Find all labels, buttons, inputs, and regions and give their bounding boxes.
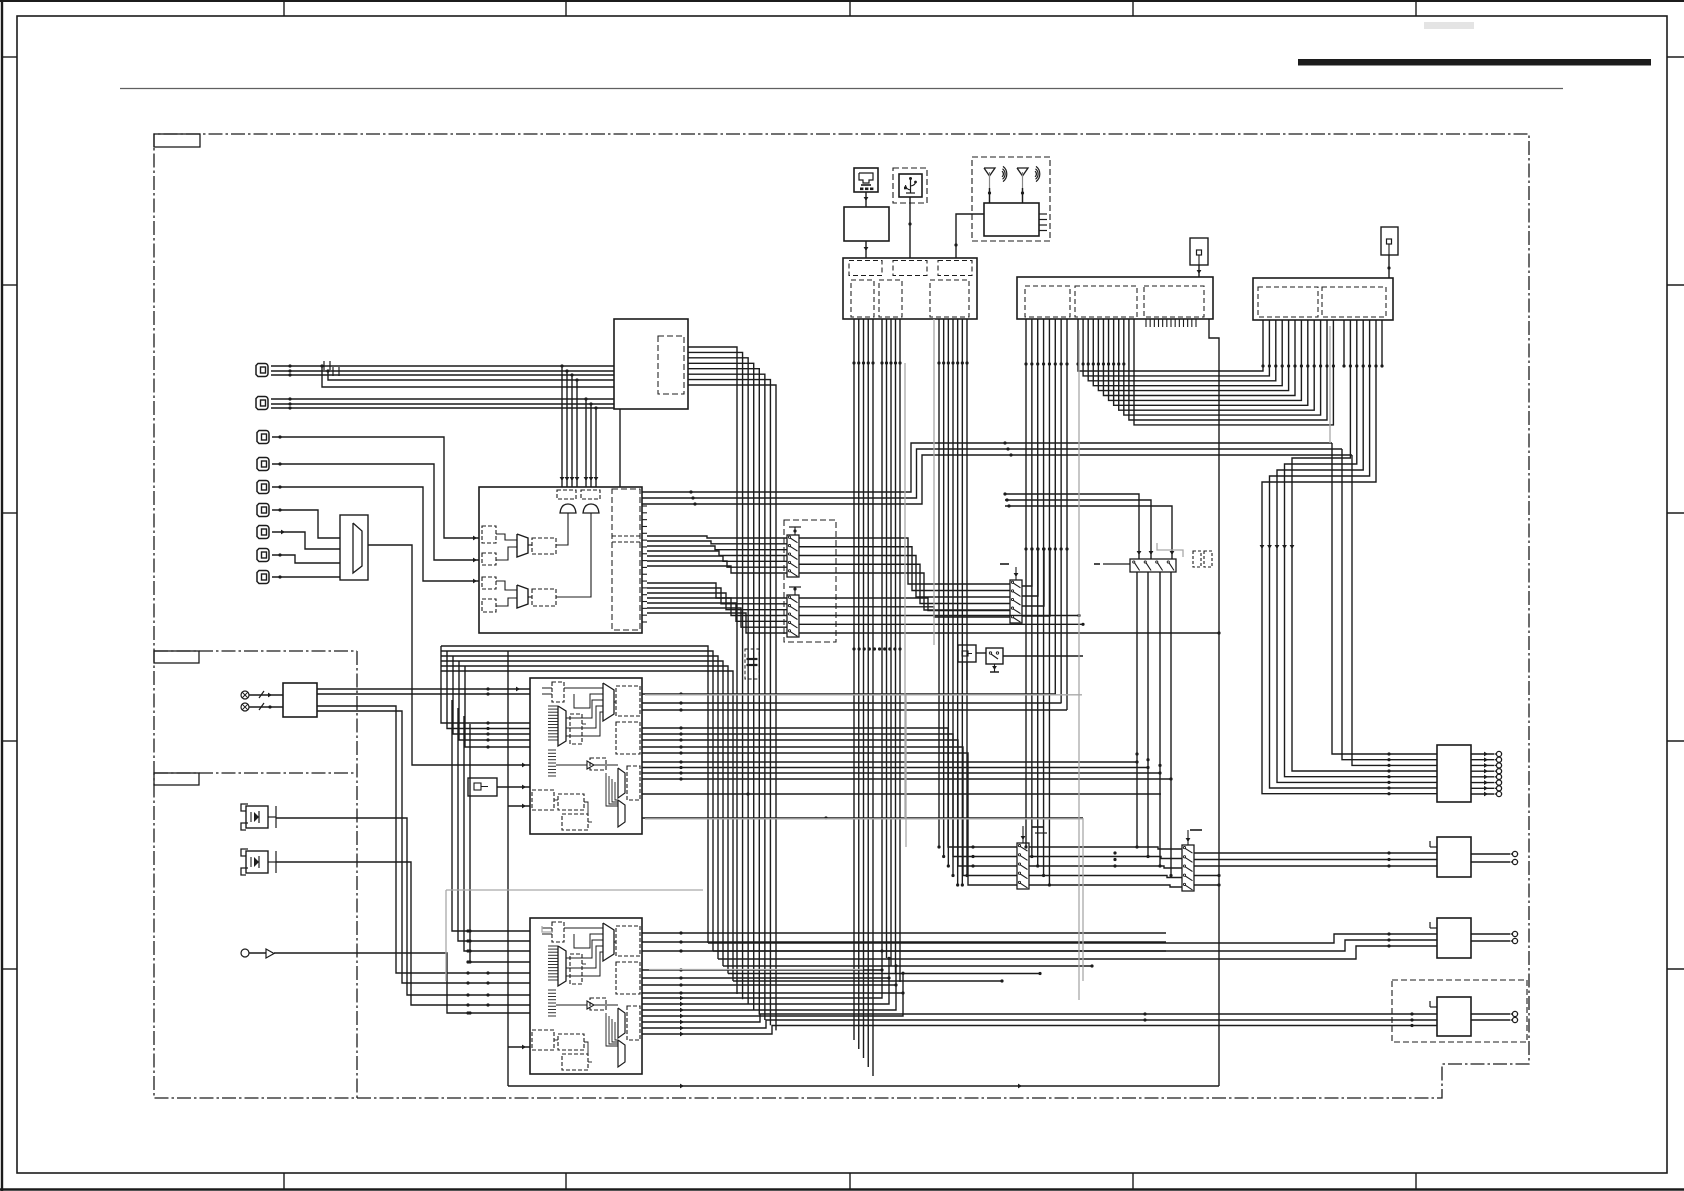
U3 pin comb bbox=[548, 706, 558, 776]
sub-unit 1 label box bbox=[154, 651, 199, 663]
U4 mux big bbox=[603, 923, 614, 961]
wire interface to CN10 bbox=[864, 241, 869, 258]
wifi antenna module dashed outline bbox=[972, 157, 1050, 241]
wire bus U3 fan right rows B bbox=[642, 726, 1182, 887]
U4 mux small b bbox=[618, 1040, 625, 1067]
wire bus U1 outputs staircase bbox=[620, 347, 776, 1030]
output box J1 bbox=[1437, 745, 1471, 802]
gray net g bbox=[649, 969, 863, 971]
CN11 dashed section b bbox=[1075, 286, 1137, 317]
wire bus U3 fan right rows A bbox=[642, 692, 1067, 711]
wire PS1 out1 bbox=[317, 687, 530, 692]
connector CN9 bbox=[257, 571, 269, 584]
wire CN3 to U2 bbox=[272, 435, 479, 540]
wire USB to CN10 bbox=[908, 197, 911, 258]
wire bus drops to U4 staircase bbox=[452, 700, 530, 964]
wire riser x508 to U3 U4 and bottom rail bbox=[508, 651, 1219, 1088]
switch bank SW2 bbox=[787, 587, 801, 637]
U3 mux big bbox=[603, 683, 614, 721]
antenna ANT1 rf waves bbox=[1002, 166, 1007, 181]
faint title text remnant bbox=[1424, 22, 1474, 29]
wire PS1 out4 bbox=[317, 711, 530, 985]
wire CN6 to MUX1 bbox=[272, 508, 340, 538]
U3 dashed box i bbox=[562, 814, 588, 830]
unit boundary label box bbox=[154, 134, 200, 147]
wire bus U3 fan right rows C bbox=[642, 760, 1173, 780]
U3 dashed box h bbox=[558, 794, 584, 810]
sub-unit boundary 2 bbox=[154, 772, 357, 774]
wire bus U2 to SW2 bbox=[647, 583, 787, 633]
connector CN1 bbox=[256, 364, 268, 377]
interface box U1 bbox=[614, 319, 688, 409]
wifi module pins bbox=[1039, 214, 1047, 231]
junction dots row CN10 groups bbox=[852, 361, 968, 364]
sub-unit 2 label box bbox=[154, 773, 199, 785]
output box J2 bbox=[1430, 837, 1471, 877]
enable dash mark bbox=[1000, 563, 1009, 565]
U3 internal wires bbox=[542, 688, 618, 822]
wire bus H1 band bbox=[441, 646, 733, 981]
U3 dashed box c bbox=[570, 714, 582, 744]
U4 dashed box h bbox=[558, 1034, 584, 1050]
wire bus SW1 outputs to SW6 bbox=[799, 538, 1010, 610]
wire CN16 to U4 bbox=[249, 953, 530, 1015]
plug P2 box bbox=[1381, 227, 1398, 255]
U3 dashed box b bbox=[616, 686, 640, 716]
switch bank SW6 bbox=[1010, 567, 1022, 623]
power box PS1 bbox=[283, 683, 317, 717]
IC U4 outline bbox=[530, 918, 642, 1074]
antenna ANT1 bbox=[984, 168, 995, 203]
main connector CN10 bbox=[843, 258, 977, 319]
U4 dashed box f bbox=[627, 1006, 640, 1040]
wire bus U4 outputs turn up bbox=[642, 949, 905, 1018]
SW4 enable mark bbox=[1032, 826, 1044, 828]
antenna ANT2 rf waves bbox=[1035, 166, 1040, 181]
wire bus into SW3 top bbox=[1003, 492, 1174, 559]
power connector CN15 bbox=[241, 703, 249, 711]
CN10 dashed section f bbox=[930, 280, 969, 317]
U2 buffer amp a bbox=[560, 504, 576, 513]
output box J4 bbox=[1430, 997, 1471, 1036]
unit boundary main outline bbox=[154, 134, 1529, 1098]
U4 mux small a bbox=[618, 1008, 625, 1038]
U2 top dashed pin group a bbox=[557, 490, 576, 499]
component box X3 bbox=[468, 778, 497, 796]
wifi module U6 bbox=[984, 203, 1039, 236]
CN11 dashed section c bbox=[1144, 286, 1204, 317]
title underline bar bbox=[1298, 59, 1651, 66]
wire bus bottom band bbox=[708, 932, 1437, 982]
U4 dashed box c bbox=[570, 954, 582, 984]
opto coupler PC2 bbox=[241, 849, 276, 875]
switch bank SW5 bbox=[1182, 830, 1194, 891]
U2 left dashed pin boxes bbox=[482, 526, 496, 612]
gray net d bbox=[1078, 330, 1080, 1000]
horizontal rule bbox=[120, 88, 1563, 90]
junction dots U4 inputs bbox=[466, 929, 469, 1014]
mic buffer bbox=[266, 949, 274, 958]
wire bus to J2 bbox=[1113, 851, 1437, 867]
U3 dashed box f bbox=[627, 766, 640, 800]
wire CN11 aux to riser bbox=[1209, 319, 1219, 1086]
ground for X2 bbox=[990, 664, 999, 672]
U3 dashed box g bbox=[532, 790, 554, 810]
CN10 dashed section a bbox=[849, 261, 882, 276]
U3 dashed box a bbox=[552, 682, 564, 702]
gray net i bbox=[542, 926, 553, 932]
gray net f bbox=[904, 363, 906, 818]
U3 mux small a bbox=[618, 768, 625, 798]
connector CN4 bbox=[257, 458, 269, 471]
wire bus SW3 outputs down bbox=[1135, 572, 1172, 877]
wire taps to U2 top bbox=[560, 364, 599, 487]
gray net c bbox=[645, 819, 1083, 981]
wire bus downcomers to J1 bbox=[1332, 443, 1437, 767]
wire bus SW2 outputs bbox=[799, 598, 1221, 635]
wire bus CN11 mid group staircase to CN12 bbox=[1076, 319, 1335, 425]
component box X1 bbox=[958, 645, 976, 662]
analog switch dashed enclosure bbox=[784, 520, 836, 642]
antenna ANT2 bbox=[1017, 168, 1028, 203]
wire PS1 out3 bbox=[317, 706, 530, 975]
connector CN8 bbox=[257, 549, 269, 562]
connector CN5 bbox=[257, 481, 269, 494]
U1 dashed section bbox=[658, 336, 684, 394]
wire X1 feed bbox=[966, 662, 968, 680]
wire CN14 to PS1 bbox=[249, 691, 283, 698]
wire CN5 to U2 bbox=[272, 485, 479, 583]
CN12 dashed section a bbox=[1258, 287, 1318, 317]
wire bus CN2 to U1 bbox=[271, 397, 614, 409]
wire CN8 to MUX1 bbox=[272, 553, 340, 563]
wire bus CN12 pins down bbox=[1260, 320, 1437, 795]
U4 dashed box b bbox=[616, 926, 640, 956]
connector CN3 bbox=[257, 431, 269, 444]
wire ethernet to interface bbox=[864, 192, 869, 207]
connector CN6 bbox=[257, 504, 269, 517]
wire X1 to X2 bbox=[976, 652, 986, 654]
wire bus U4 fan right upper bbox=[642, 931, 1166, 952]
U2 internal dashed box b bbox=[532, 589, 556, 606]
USB icon dashed outline bbox=[893, 168, 927, 203]
connector CN2 bbox=[256, 397, 268, 410]
sub-unit boundary 1 bbox=[154, 650, 357, 652]
gray net a bbox=[645, 695, 1082, 847]
wire PS1 out2 bbox=[317, 692, 530, 695]
output dashed enclosure J4 bbox=[1392, 980, 1527, 1042]
switch bank SW4 bbox=[1017, 826, 1047, 889]
gray net b bbox=[446, 890, 703, 981]
U2 internal wires bbox=[496, 513, 591, 606]
wire wifi module to CN10 bbox=[954, 214, 984, 258]
switch bank SW3 bbox=[1094, 559, 1176, 572]
IC U2 main outline bbox=[479, 487, 642, 633]
wire bus U4 fan right mid bbox=[642, 968, 905, 994]
wire bus CN10 group C down bbox=[934, 319, 969, 887]
gray net e bbox=[1329, 326, 1331, 443]
U2 internal dashed box a bbox=[532, 538, 556, 554]
USB icon J-USB bbox=[899, 174, 922, 197]
CN10 dashed section b bbox=[893, 261, 927, 276]
U4 pin comb bbox=[548, 946, 558, 1016]
wire bus to J3 staircase bbox=[0, 0, 1, 1]
small dashed boxes D1 bbox=[1193, 551, 1212, 567]
wire bus U2 aux outputs jog bbox=[642, 441, 1352, 505]
wire CN15 to PS1 bbox=[249, 703, 283, 710]
U4 dashed box a bbox=[552, 922, 564, 942]
CN12 dashed section b bbox=[1322, 287, 1386, 317]
U4 dashed box i bbox=[562, 1054, 588, 1070]
SW5 enable mark bbox=[1190, 829, 1202, 831]
U2 top dashed pin group b bbox=[581, 490, 600, 499]
ethernet interface box U5 bbox=[844, 207, 889, 241]
switch box X2 bbox=[986, 648, 1003, 664]
gray net h bbox=[1157, 543, 1183, 557]
opto coupler PC1 bbox=[241, 804, 276, 830]
IC U3 outline bbox=[530, 678, 642, 834]
wire bank2 aux outputs bbox=[1194, 874, 1221, 887]
U4 dashed box g bbox=[532, 1030, 554, 1050]
wire PC2 to U4 bbox=[276, 862, 530, 1007]
wire bus CN10 group B down bbox=[882, 319, 900, 982]
connector CN11 bbox=[1017, 277, 1213, 319]
J4 output wires bbox=[1471, 1011, 1518, 1022]
plug P1 box bbox=[1190, 238, 1208, 265]
J2 output wires bbox=[1471, 851, 1518, 864]
U4 small buffer bbox=[587, 1001, 594, 1009]
mux MUX1 bbox=[340, 515, 368, 580]
CN10 dashed section c bbox=[938, 261, 972, 276]
U2 internal mux a bbox=[517, 534, 528, 557]
CN11 right pin stubs bbox=[1146, 319, 1196, 327]
U3 dashed box d bbox=[616, 722, 640, 754]
connector CN12 bbox=[1253, 278, 1393, 320]
wire bus U4 outputs to J4 bbox=[642, 1012, 1437, 1036]
U4 mux left bbox=[558, 946, 566, 986]
junction dots row mid 649 bbox=[852, 647, 901, 650]
connector CN7 bbox=[257, 526, 269, 539]
wire X3 to U3 bbox=[497, 785, 530, 790]
U4 internal wires bbox=[542, 928, 618, 1062]
wire CN9 to MUX1 bbox=[272, 575, 340, 578]
mic connector CN16 bbox=[241, 949, 249, 957]
switch bank SW1 bbox=[787, 527, 801, 577]
U3 dashed box e bbox=[590, 758, 606, 770]
J3 output wires bbox=[1471, 931, 1518, 943]
wire bus CN10 group A down bbox=[854, 319, 873, 1076]
wire bus CN1 to U1 bbox=[271, 361, 614, 387]
power connector CN14 bbox=[241, 691, 249, 699]
wire bus U3 inputs upper bbox=[0, 0, 1, 1]
inline filter F1 bbox=[745, 649, 759, 679]
wire P2 to CN12 bbox=[1387, 255, 1390, 278]
U4 dashed box d bbox=[616, 962, 640, 994]
U3 mux left bbox=[558, 706, 566, 746]
wire bus SW6 outputs bbox=[1022, 547, 1052, 616]
U2 right dashed pin column bbox=[612, 489, 640, 630]
U2 buffer amp b bbox=[583, 504, 599, 513]
U4 dashed box e bbox=[590, 998, 606, 1010]
wire CN4 to U2 bbox=[272, 462, 479, 562]
wire bus CN11 left group down bbox=[1024, 319, 1068, 887]
U3 small buffer bbox=[587, 761, 594, 769]
U3 mux small b bbox=[618, 800, 625, 827]
CN10 dashed section e bbox=[879, 280, 902, 317]
wire X2 output bbox=[1003, 655, 1083, 657]
CN11 dashed section a bbox=[1025, 286, 1070, 317]
output box J3 bbox=[1430, 918, 1471, 958]
ethernet jack icon J-LAN bbox=[854, 168, 878, 192]
J1 output wires bbox=[1471, 751, 1502, 796]
U2 internal mux b bbox=[517, 585, 528, 608]
CN10 dashed section d bbox=[851, 280, 874, 317]
wire CN7 to MUX1 bbox=[272, 530, 340, 549]
wire U3 fan row E bbox=[642, 816, 1083, 819]
wire P1 to CN11 bbox=[1197, 265, 1202, 277]
sub-unit boundary vertical bbox=[356, 651, 358, 1098]
U2 right pin stubs bbox=[642, 506, 647, 622]
wire bus U2 to SW1 bbox=[647, 536, 787, 573]
wire MUX1 to U3 bbox=[368, 545, 530, 767]
wire bus risers to U3 inputs bbox=[441, 646, 530, 749]
wire U3 fan row D bbox=[642, 792, 1161, 795]
wire PC1 to U4 bbox=[276, 818, 530, 997]
